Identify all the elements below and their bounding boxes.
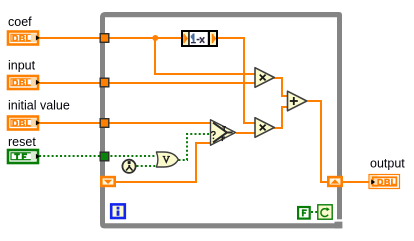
svg-text:reset: reset bbox=[8, 135, 36, 149]
svg-text:initial value: initial value bbox=[8, 99, 70, 113]
svg-text:output: output bbox=[370, 156, 405, 170]
svg-text:coef: coef bbox=[8, 15, 32, 29]
svg-text:input: input bbox=[8, 58, 36, 72]
